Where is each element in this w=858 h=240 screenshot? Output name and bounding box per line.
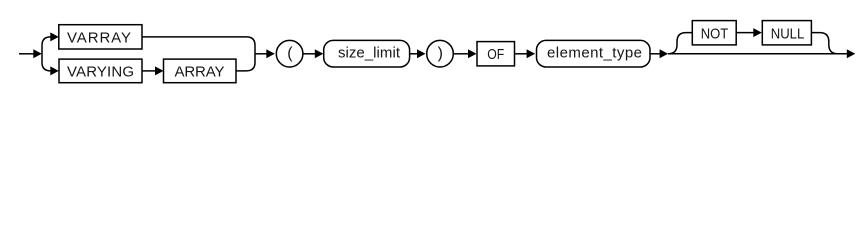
wire element_type to optional branch junction (650, 53, 660, 55)
wire: bottom row to right merge (236, 54, 255, 71)
end arrow (847, 49, 856, 58)
svg-text:size_limit: size_limit (338, 45, 401, 62)
terminal box NOT (692, 21, 736, 45)
wire NOT to NULL (736, 32, 753, 34)
arrow into VARRAY (50, 32, 59, 41)
wire close paren to OF (453, 53, 468, 55)
nonterminal oval element_type (537, 40, 651, 67)
wire: split vertical (41, 45, 43, 62)
wire: merge to open paren (255, 53, 267, 55)
terminal box VARYING (59, 59, 142, 83)
wire: split down to VARYING (42, 62, 51, 71)
svg-text:element_type: element_type (547, 45, 642, 62)
arrow into VARYING (50, 66, 59, 75)
terminal circle ) (427, 40, 454, 67)
wire OF to element_type (515, 53, 528, 55)
svg-text:VARYING: VARYING (67, 64, 134, 81)
wire: top row to right merge (142, 37, 255, 54)
wire: split up to VARRAY (42, 37, 51, 46)
arrow at optional branch junction (660, 49, 669, 58)
svg-text:(: ( (287, 45, 293, 62)
wire VARYING to ARRAY (142, 70, 156, 72)
svg-text:): ) (438, 45, 443, 62)
arrow into element_type (527, 49, 536, 58)
arrow into OF (468, 49, 477, 58)
svg-text:VARRAY: VARRAY (67, 30, 131, 47)
terminal box VARRAY (59, 25, 142, 49)
wire size_limit to close paren (410, 53, 418, 55)
svg-text:NULL: NULL (771, 26, 805, 43)
wire: branch up to NOT (668, 33, 692, 54)
start arrow (19, 49, 42, 58)
arrow into NULL (753, 28, 762, 37)
wire: main bypass line to end (668, 53, 847, 55)
arrow into ARRAY (155, 66, 164, 75)
terminal box NULL (762, 21, 811, 45)
svg-text:ARRAY: ARRAY (175, 64, 225, 81)
svg-text:OF: OF (487, 46, 504, 63)
wire paren to size_limit (303, 53, 315, 55)
arrow into size_limit (315, 49, 324, 58)
terminal box ARRAY (164, 59, 237, 83)
terminal box OF (477, 42, 515, 66)
nonterminal oval size_limit (324, 40, 410, 67)
terminal circle ( (276, 40, 303, 67)
arrow into open paren (266, 49, 275, 58)
arrow into close paren (417, 49, 426, 58)
wire: NULL back down to main line (811, 33, 837, 54)
svg-text:NOT: NOT (701, 26, 729, 43)
